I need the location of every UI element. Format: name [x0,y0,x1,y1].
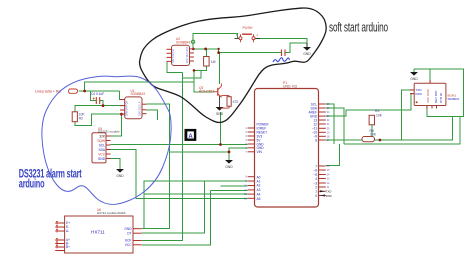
svg-text:PUSH: PUSH [243,26,253,30]
svg-text:A: A [188,134,193,140]
svg-text:soft start arduino: soft start arduino [329,21,388,35]
svg-text:16: 16 [327,166,330,168]
svg-text:15: 15 [327,170,330,172]
svg-text:RXD: RXD [416,92,423,96]
svg-text:HX711 module ROFA: HX711 module ROFA [97,211,126,215]
svg-text:DS3231 module: DS3231 module [98,130,120,134]
svg-text:RXD: RXD [326,194,332,198]
svg-text:VCC: VCC [98,152,105,156]
svg-text:VCC OUT RST: VCC OUT RST [186,46,189,63]
svg-text:22: 22 [327,120,330,122]
svg-text:HX711: HX711 [91,230,105,235]
svg-text:2: 2 [246,132,248,134]
svg-text:B+: B+ [66,245,70,249]
svg-text:VIN: VIN [257,150,263,154]
svg-text:4: 4 [246,140,248,142]
svg-text:20: 20 [327,128,330,130]
svg-text:GND: GND [225,165,233,169]
svg-text:SDA: SDA [98,148,105,152]
svg-text:1: 1 [246,128,248,130]
svg-text:C4 0.1uF: C4 0.1uF [91,92,104,96]
svg-text:13: 13 [327,179,330,181]
svg-text:1M: 1M [211,60,216,64]
svg-text:arduino: arduino [19,178,45,191]
svg-text:R2: R2 [79,117,83,121]
svg-text:32K: 32K [99,134,106,138]
svg-text:DT: DT [127,231,131,235]
svg-text:SQW: SQW [97,139,105,143]
svg-text:GND: GND [98,157,106,161]
svg-text:0: 0 [315,194,317,198]
svg-text:VCC GND: VCC GND [426,88,430,103]
svg-text:UNO_R3: UNO_R3 [283,85,297,89]
svg-text:18: 18 [327,136,330,138]
svg-text:GND: GND [116,174,124,178]
svg-text:DIS THR TRI: DIS THR TRI [172,49,175,63]
svg-text:24: 24 [327,112,330,114]
svg-text:12: 12 [327,183,330,185]
svg-text:GND: GND [216,112,224,116]
svg-text:4: 4 [315,177,317,181]
svg-text:A3: A3 [257,188,261,192]
svg-text:SIM800L: SIM800L [448,97,460,101]
svg-text:~6: ~6 [313,168,317,172]
svg-text:A-: A- [66,229,69,233]
svg-text:NET RST: NET RST [434,90,438,103]
svg-text:GND: GND [124,227,132,231]
svg-text:3: 3 [246,136,248,138]
svg-text:R5: R5 [375,109,379,113]
svg-text:SONB843: SONB843 [176,41,191,45]
svg-text:32W MHP QR: 32W MHP QR [126,101,129,116]
svg-text:8: 8 [246,177,248,179]
svg-text:A5: A5 [257,197,261,201]
svg-text:21: 21 [327,124,330,126]
svg-text:GND: GND [303,52,311,56]
svg-text:SONB843: SONB843 [131,92,146,96]
svg-text:10K: 10K [376,114,383,118]
svg-text:10K: 10K [370,133,377,137]
svg-text:Linea tarla + RC: Linea tarla + RC [35,90,61,94]
svg-text:14: 14 [327,175,330,177]
svg-text:7: 7 [246,152,248,154]
svg-text:DTR RI: DTR RI [439,93,443,103]
svg-text:470: 470 [233,100,239,104]
svg-text:A2: A2 [257,184,261,188]
svg-text:SCL: SCL [99,143,105,147]
svg-text:VCC: VCC [125,243,132,247]
svg-text:19: 19 [327,132,330,134]
svg-text:2: 2 [257,33,259,37]
svg-text:GND: GND [410,77,418,81]
svg-text:8: 8 [315,138,317,142]
svg-text:OSO EKS LP: OSO EKS LP [139,101,142,116]
svg-text:BC547BTA: BC547BTA [199,89,216,93]
